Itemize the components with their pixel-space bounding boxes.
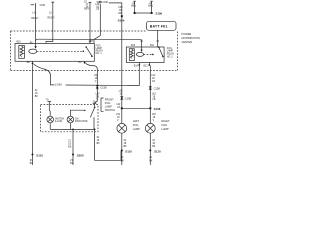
splice S104 <box>118 15 125 22</box>
splice S110 <box>32 153 44 157</box>
right feed upper label <box>151 75 156 83</box>
svg-text:S104: S104 <box>118 18 125 22</box>
right feed lower label <box>152 114 157 122</box>
wire B8 to B14 (coil return bus) <box>34 64 140 86</box>
splice S109 <box>121 149 132 153</box>
svg-text:BK/L: BK/L <box>131 6 137 8</box>
fog lamp switch dashed box <box>41 104 99 131</box>
switch return label <box>68 140 72 148</box>
relay K2 armature ellipse <box>136 52 143 56</box>
svg-text:BK: BK <box>68 146 72 148</box>
splice S106 (link wire F to wire G) <box>134 12 163 16</box>
svg-text:BATT F61: BATT F61 <box>150 25 168 29</box>
svg-text:RELAY: RELAY <box>167 53 175 56</box>
svg-text:B10: B10 <box>17 41 22 43</box>
pin B12 (stub + dot + label) <box>144 62 151 67</box>
svg-text:CENTER: CENTER <box>182 40 193 44</box>
svg-text:S200: S200 <box>77 153 84 157</box>
svg-text:INDICATOR: INDICATOR <box>75 120 88 123</box>
left lamp ground label <box>124 140 128 148</box>
left ground wire label <box>35 90 39 98</box>
wire switch lamps return <box>72 129 74 154</box>
label ON INDICATOR <box>75 118 88 123</box>
svg-text:LAMP: LAMP <box>167 50 174 53</box>
switch internal return bus <box>50 123 95 131</box>
svg-text:LAMP: LAMP <box>96 47 103 50</box>
left ground wire lower label <box>30 160 34 165</box>
svg-text:FOG: FOG <box>167 48 172 50</box>
wire switch output label <box>97 137 101 145</box>
left feed mid label <box>117 104 122 109</box>
wire A (left feed into relay K1 coil) <box>34 6 36 49</box>
relay K1 box (FOG LAMP RELAY NO. 1) <box>15 44 94 62</box>
splice S200 <box>72 153 84 157</box>
wire to bottom edge <box>32 155 34 166</box>
wire switch output to lamp ground splice <box>95 129 122 160</box>
relay K2 internal dashed link <box>144 53 152 55</box>
svg-text:BK: BK <box>97 143 101 145</box>
right lamp ground label <box>152 140 156 148</box>
switch pin 3A (tick + label) <box>93 101 97 106</box>
label FRONT FOG LAMP SWITCH (with bracket) <box>101 97 115 112</box>
wire B label <box>48 13 56 20</box>
relay K2 coil <box>129 49 134 61</box>
svg-text:B14: B14 <box>134 65 139 67</box>
connector C150 at wire A top <box>31 3 46 7</box>
wire label 2 18A <box>55 82 66 86</box>
svg-text:ON: ON <box>75 118 79 120</box>
wire A label (L34 RD/O) <box>31 12 39 20</box>
fog switch contact <box>70 106 95 129</box>
BATT A0 reference box <box>147 21 177 30</box>
switch return lower label <box>70 160 74 165</box>
svg-text:NO. 2: NO. 2 <box>167 56 174 58</box>
wire E (from top edge to relay K2 coil and lamp feed node) <box>109 3 122 40</box>
svg-text:C158: C158 <box>100 86 107 90</box>
svg-text:BK: BK <box>35 96 39 98</box>
power distribution center dashed box <box>11 31 178 71</box>
pin B5 (stub + label) <box>89 40 94 44</box>
svg-text:2 18A: 2 18A <box>55 83 62 87</box>
label LEFT FOG LAMP <box>133 119 140 131</box>
svg-text:SWITCH: SWITCH <box>105 108 115 112</box>
svg-text:BK/L: BK/L <box>148 6 154 8</box>
wire D (into relay K1 top right) <box>94 4 100 44</box>
svg-text:FOG: FOG <box>105 101 111 105</box>
svg-text:LAMP: LAMP <box>105 104 112 108</box>
svg-text:B12: B12 <box>144 65 149 67</box>
svg-text:RELAY: RELAY <box>96 50 104 53</box>
wire B (into relay K1) <box>46 2 53 44</box>
right lamp ground wire <box>149 133 151 165</box>
svg-text:C158: C158 <box>154 86 161 90</box>
label SWITCH ILLUM. <box>55 118 64 123</box>
label FOG LAMP RELAY NO. 1 <box>96 45 104 55</box>
svg-text:S110: S110 <box>36 153 43 157</box>
svg-text:3A: 3A <box>93 101 96 104</box>
svg-text:C158: C158 <box>125 96 132 100</box>
wire B9 to fog lamp switch <box>86 63 98 103</box>
wire from B6 up and across to node (horizontal bus) <box>36 39 122 41</box>
on indicator lamp <box>67 116 74 123</box>
relay K1 contact <box>83 46 93 57</box>
wire node to relay K2 pin B13 (arrow) <box>122 40 143 52</box>
wire C label <box>84 4 91 11</box>
svg-text:LB: LB <box>152 81 155 83</box>
label POWER DISTRIBUTION CENTER <box>182 32 200 44</box>
wire C (into relay K1 pin B5) <box>89 2 91 44</box>
svg-text:BK/YL: BK/YL <box>84 9 91 11</box>
left lamp ground wire <box>121 133 123 165</box>
wire ground from B8 down left side <box>32 64 34 154</box>
svg-text:LEFT: LEFT <box>133 119 140 123</box>
right fog lamp <box>145 123 155 133</box>
left fog lamp <box>117 123 127 133</box>
svg-text:ILLUM.: ILLUM. <box>55 121 63 123</box>
wire G (top right feed to BATT) <box>151 1 153 13</box>
left feed upper label <box>119 91 124 96</box>
switch illumination lamp <box>47 116 54 123</box>
right feed mid label <box>152 93 157 101</box>
pin B9 (stub + dot + label) <box>79 61 86 64</box>
wire B9 label upper <box>94 75 99 83</box>
svg-text:S110: S110 <box>154 149 161 153</box>
svg-text:SWITCH: SWITCH <box>55 118 64 120</box>
svg-text:S110: S110 <box>125 149 132 153</box>
connector C158 on switch feed <box>96 86 107 90</box>
relay K1 internal dashed link <box>37 50 83 52</box>
svg-text:C158: C158 <box>102 2 108 4</box>
switch pin 7A (tick + label) <box>46 99 51 117</box>
svg-text:RD/GY: RD/GY <box>48 18 56 20</box>
svg-text:S106: S106 <box>155 12 162 16</box>
wire D label <box>96 4 101 11</box>
left feed lower label <box>116 114 121 122</box>
relay K2 contact <box>152 46 164 57</box>
splice S108 crossbar <box>121 107 161 111</box>
connector C158 on left feed <box>120 96 131 100</box>
svg-text:S108: S108 <box>154 107 161 111</box>
relay K1 coil <box>19 46 25 59</box>
svg-text:NO. 1: NO. 1 <box>96 53 103 55</box>
svg-text:DISTRIBUTION: DISTRIBUTION <box>182 36 200 40</box>
wire F (top right feed) <box>134 1 136 13</box>
svg-text:BK: BK <box>124 146 128 148</box>
wire left fog lamp feed <box>121 40 123 124</box>
svg-text:RIGHT: RIGHT <box>162 119 170 123</box>
svg-text:C150: C150 <box>40 5 46 7</box>
wire G label <box>148 2 154 8</box>
svg-text:BK: BK <box>152 146 156 148</box>
svg-text:RD: RD <box>118 13 122 15</box>
svg-text:BK: BK <box>149 160 153 162</box>
relay K2 box (FOG LAMP RELAY NO. 2) <box>126 47 164 62</box>
left lamp ground lower label <box>121 157 125 162</box>
splice S111 <box>149 149 161 153</box>
svg-text:7A: 7A <box>46 99 49 102</box>
connector C2 at wire C top <box>84 1 91 3</box>
right lamp ground lower label <box>149 157 153 162</box>
relay K1 armature ellipse <box>29 49 37 53</box>
wire right fog lamp feed from B12 <box>149 66 151 124</box>
svg-text:FRONT: FRONT <box>105 97 114 101</box>
label RIGHT FOG LAMP <box>162 119 170 131</box>
connector C158 at wire D top <box>97 1 109 4</box>
wire E label <box>118 7 123 15</box>
label FOG LAMP RELAY NO. 2 <box>167 48 175 58</box>
svg-text:RD/GY: RD/GY <box>31 18 39 20</box>
wire to bottom edge <box>72 155 74 166</box>
wire F label <box>131 2 137 8</box>
wire B9 label lower <box>96 93 101 101</box>
svg-text:LB: LB <box>153 99 156 101</box>
pin B8 (stub + dot + label) <box>27 61 34 64</box>
svg-text:LAMP: LAMP <box>133 127 140 131</box>
svg-text:FOG: FOG <box>162 123 168 127</box>
wire BATT to relay K2 pin B11 <box>156 30 159 47</box>
connector C158 on right feed <box>149 86 160 90</box>
pin B14 (stub + dot + label) <box>134 62 140 67</box>
svg-text:FOG: FOG <box>133 123 139 127</box>
svg-text:BK: BK <box>121 160 125 162</box>
svg-text:POWER: POWER <box>182 32 192 36</box>
wire B top tick <box>51 1 54 3</box>
svg-text:LAMP: LAMP <box>162 127 169 131</box>
svg-text:LB: LB <box>96 9 99 11</box>
